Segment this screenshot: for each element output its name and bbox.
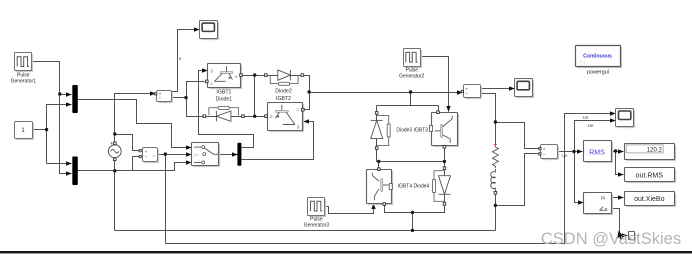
svg-text:Generator1: Generator1 — [11, 79, 37, 85]
svg-text:IGBT1: IGBT1 — [216, 89, 231, 95]
svg-text:g: g — [297, 125, 299, 129]
svg-text:RMS: RMS — [589, 149, 605, 156]
svg-text:Diode3 IGBT3: Diode3 IGBT3 — [396, 127, 428, 133]
svg-text:CSDN @VastSkies: CSDN @VastSkies — [541, 230, 681, 248]
svg-text:Continuous: Continuous — [583, 54, 612, 60]
svg-text:out.XieBo: out.XieBo — [634, 196, 664, 203]
svg-text:IGBT2: IGBT2 — [276, 96, 291, 102]
svg-text:Generator2: Generator2 — [399, 74, 425, 80]
svg-text:C: C — [297, 108, 300, 112]
svg-text:| >: | > — [194, 153, 198, 157]
svg-text:Diode1: Diode1 — [216, 97, 233, 103]
svg-text:E: E — [270, 115, 273, 119]
svg-text:Generator3: Generator3 — [304, 223, 330, 229]
svg-text:Us: Us — [583, 115, 589, 120]
svg-text:E: E — [235, 75, 238, 79]
svg-text:Ue: Ue — [562, 153, 568, 158]
svg-text:out.RMS: out.RMS — [636, 173, 664, 180]
svg-text:IGBT4 Diode4: IGBT4 Diode4 — [398, 183, 430, 189]
svg-text:|u|: |u| — [601, 195, 606, 200]
svg-text:v: v — [153, 154, 155, 158]
svg-text:Ue: Ue — [588, 123, 594, 128]
svg-text:powergui: powergui — [587, 70, 609, 76]
svg-text:g: g — [211, 69, 213, 73]
svg-text:2?: 2? — [579, 61, 585, 67]
svg-text:Diode2: Diode2 — [275, 89, 292, 95]
svg-text:C: C — [210, 82, 213, 86]
svg-text:120.2: 120.2 — [647, 148, 663, 154]
